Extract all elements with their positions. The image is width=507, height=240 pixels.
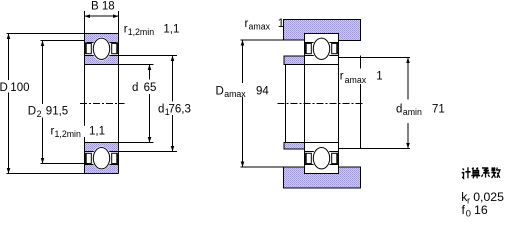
bearing top edge right drawing [305, 33, 339, 35]
shield left top section [85, 43, 91, 54]
bearing left face right drawing [304, 34, 306, 174]
svg-text:amax: amax [345, 75, 367, 85]
svg-text:76,3: 76,3 [169, 104, 191, 116]
ball bottom right [313, 148, 329, 169]
svg-text:r: r [467, 196, 470, 206]
ball top right [313, 38, 329, 59]
svg-text:1,1: 1,1 [163, 24, 179, 36]
damin extension top [339, 57, 411, 59]
svg-text:16: 16 [474, 203, 488, 217]
hanzi shu [491, 168, 500, 179]
ramax extension vertical line [360, 56, 362, 69]
shield right bottom right drawing [332, 153, 338, 164]
D2 extension line top [41, 40, 85, 42]
svg-text:amax: amax [224, 89, 246, 99]
B arrow left [85, 14, 91, 18]
damin dimension line lower [407, 123, 409, 149]
shaft cut line [285, 65, 287, 143]
outer ring band bottom (stippled) [85, 165, 119, 174]
raceway groove halo bottom [92, 146, 111, 170]
svg-text:65: 65 [144, 82, 157, 94]
bore line top + d extension top [85, 64, 154, 66]
d1 dimension line upper [172, 56, 174, 102]
D2 arrow up [41, 41, 45, 47]
D dimension line lower [8, 93, 10, 174]
housing top (stippled) [284, 20, 361, 41]
bore line bottom + d extension bottom [85, 142, 154, 144]
inner ring band top (stippled) [85, 56, 119, 65]
D2 arrow down [41, 158, 45, 164]
d1 dimension line lower [172, 115, 174, 152]
inner ring top shoulder line right drawing [305, 55, 339, 57]
outer ring bottom inner edge line right drawing [305, 164, 339, 166]
raceway groove halo bottom right [312, 146, 331, 170]
hanzi ji (calculate) [462, 167, 500, 178]
svg-text:1: 1 [376, 71, 382, 83]
hanzi xi [481, 168, 489, 178]
damin dimension line upper [407, 58, 409, 100]
svg-text:r: r [340, 71, 344, 83]
bore line bottom right drawing [284, 142, 339, 144]
Damax dimension line lower [242, 97, 244, 167]
Damax extension top [241, 39, 284, 41]
d dimension line upper [149, 65, 151, 80]
svg-text:D: D [0, 82, 8, 94]
inner ring band bottom (stippled) [85, 143, 119, 152]
housing bottom (stippled) [284, 167, 361, 188]
bore line top right drawing [284, 64, 339, 66]
D2 dimension line lower [42, 118, 44, 164]
shield left bottom right drawing [305, 153, 311, 164]
raceway groove halo top right [312, 37, 331, 61]
centerline right drawing [278, 103, 364, 105]
D2 extension line bottom [41, 163, 89, 165]
Damax extension bottom [241, 166, 284, 168]
bearing right face line [118, 34, 120, 174]
damin arrow down [406, 143, 410, 149]
svg-text:71: 71 [432, 104, 445, 116]
outer ring top inner edge line right drawing [305, 42, 339, 44]
B extension line right [118, 11, 120, 34]
D dimension line upper [8, 34, 10, 81]
ball top [93, 38, 109, 59]
shaft shoulder bar top (stippled) [284, 56, 305, 65]
svg-text:d: d [132, 82, 138, 94]
raceway groove halo top [92, 37, 111, 61]
centerline left drawing [80, 103, 125, 105]
svg-text:1: 1 [278, 18, 284, 30]
d arrow down [148, 137, 152, 143]
B arrow right [113, 14, 119, 18]
label background lower r12min [49, 126, 100, 137]
shield right top section [112, 43, 118, 54]
inner ring bottom shoulder line + d1 extension bottom [85, 151, 177, 153]
svg-text:94: 94 [256, 86, 269, 98]
inner ring top shoulder line + d1 extension top [85, 55, 177, 57]
svg-text:D: D [28, 106, 36, 118]
d dimension line lower [149, 94, 151, 143]
d1 arrow up [171, 56, 175, 62]
svg-text:d: d [158, 104, 164, 116]
outer ring shoulder tabs left drawing [85, 43, 88, 47]
shaft shoulder bar bottom (stippled) [284, 143, 305, 149]
outer ring top inner edge line [85, 42, 119, 44]
Damax dimension line upper [242, 40, 244, 83]
bearing bottom edge right drawing [305, 173, 339, 175]
d1 arrow down [171, 146, 175, 152]
bearing right face right drawing [338, 34, 340, 174]
bearing top edge + D extension top [7, 33, 119, 35]
svg-text:d: d [396, 104, 402, 116]
Damax arrow up [241, 40, 245, 46]
shield left top right drawing [305, 43, 311, 54]
svg-text:0,025: 0,025 [473, 190, 504, 204]
B dimension line [85, 15, 119, 17]
damin arrow up [406, 58, 410, 64]
D arrow up [7, 34, 11, 40]
shield left bottom section [85, 153, 91, 164]
svg-text:D: D [216, 86, 224, 98]
svg-text:amin: amin [403, 107, 422, 117]
D2 dimension line upper [42, 41, 44, 105]
B extension line left [84, 11, 86, 34]
hanzi suan [471, 168, 480, 179]
svg-text:91,5: 91,5 [46, 106, 68, 118]
Damax arrow down [241, 162, 245, 168]
bearing bottom edge + D extension bottom [7, 173, 119, 175]
svg-text:1,2min: 1,2min [55, 129, 82, 139]
svg-text:100: 100 [10, 82, 29, 94]
d arrow up [148, 65, 152, 71]
ball bottom [93, 148, 109, 169]
damin extension bottom [339, 148, 411, 150]
svg-text:2: 2 [37, 109, 42, 119]
D arrow down [7, 168, 11, 174]
bearing left face line [84, 34, 86, 174]
svg-text:1,2min: 1,2min [128, 27, 155, 37]
svg-text:B 18: B 18 [91, 0, 115, 12]
svg-text:amax: amax [249, 22, 271, 32]
outer ring bottom inner edge line [85, 164, 119, 166]
inner ring bottom shoulder line right drawing [305, 151, 339, 153]
svg-text:0: 0 [466, 209, 471, 218]
svg-text:1,1: 1,1 [89, 126, 105, 138]
shield right top right drawing [332, 43, 338, 54]
shield right bottom section [112, 153, 118, 164]
outer ring band top (stippled) [85, 34, 119, 43]
